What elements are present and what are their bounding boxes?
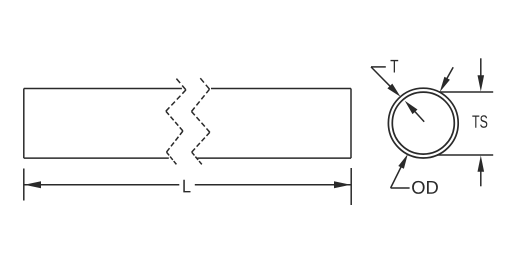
tube side view: left vertical edge: [23, 89, 25, 159]
label L: [183, 180, 190, 193]
L dimension: right arrowhead: [334, 181, 351, 188]
L dimension line: left part: [24, 184, 179, 186]
tube side view: bottom edge right segment: [197, 157, 351, 159]
T label leader: diagonal segment toward wall: [371, 67, 395, 91]
L dimension: left extension line: [23, 169, 25, 201]
tube side view: right vertical edge: [350, 89, 352, 159]
OD label leader: diagonal segment toward circle: [391, 163, 403, 188]
tube side view: bottom edge left segment: [24, 157, 169, 159]
TS bottom arrowhead (points up): [478, 156, 485, 172]
break line: left zigzag (dashed): [166, 79, 186, 165]
label OD: [412, 181, 438, 194]
OD label leader: horizontal segment: [391, 187, 410, 189]
OD arrowhead (points up-right at circle): [398, 154, 408, 169]
break line: right zigzag (dashed): [192, 78, 210, 164]
TS top arrowhead (points down): [478, 75, 485, 91]
T outer arrowhead (points down-right at wall): [387, 84, 400, 97]
top-right arrow shaft (points at wall / TS line start): [445, 67, 454, 83]
L dimension: right extension line: [350, 168, 352, 205]
top-right arrowhead (points down-left at wall): [440, 77, 450, 92]
label T: [391, 60, 399, 73]
T label leader: horizontal segment: [371, 66, 386, 68]
TS dimension: bottom arrow shaft: [480, 170, 482, 186]
T inner arrowhead (points up-left at wall from inside): [405, 101, 418, 114]
tube side view: top edge left segment: [24, 88, 182, 90]
tube side view: top edge right segment: [211, 88, 351, 90]
TS dimension: top arrow shaft: [480, 58, 482, 78]
T inner arrow shaft (from centre toward wall): [413, 109, 424, 121]
L dimension: left arrowhead: [24, 181, 41, 188]
tube cross-section: outer circle (OD): [388, 88, 458, 158]
tube cross-section: inner circle (ID): [392, 92, 454, 154]
TS dimension: bottom horizontal line: [437, 154, 493, 156]
TS dimension: top horizontal line: [439, 91, 493, 93]
label TS: [472, 115, 487, 128]
L dimension line: right part: [195, 184, 351, 186]
